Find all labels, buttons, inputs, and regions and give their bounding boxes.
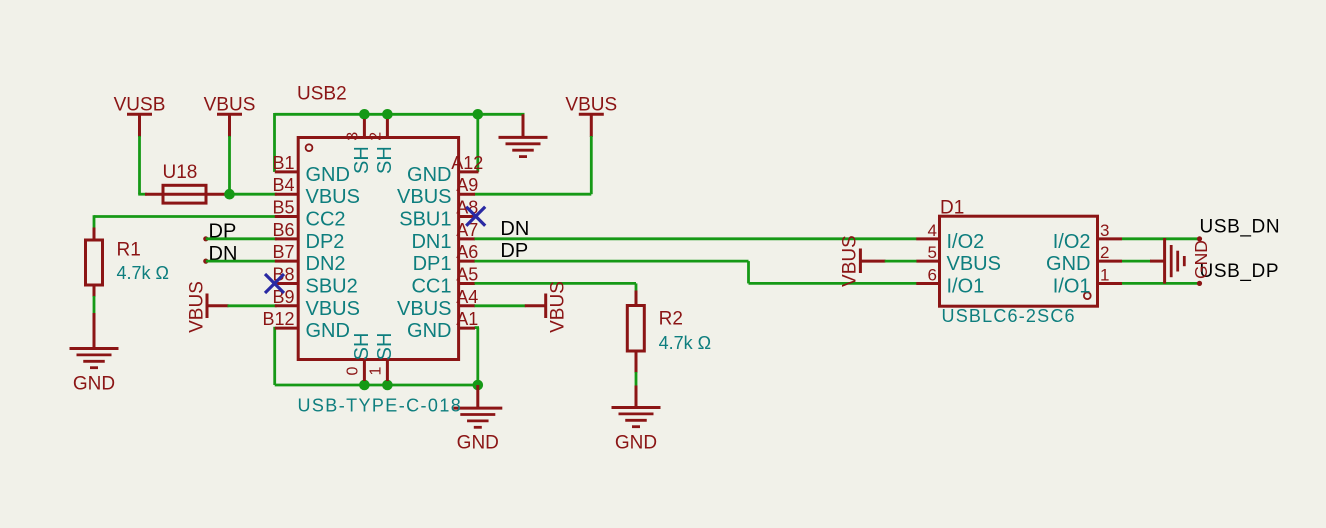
pin A8 SBU1 <box>459 215 475 218</box>
pin A1 GND <box>459 327 475 330</box>
svg-text:VBUS: VBUS <box>547 281 568 333</box>
wire CC1 A5 <box>475 282 637 285</box>
wire B12 drop <box>273 327 276 385</box>
pin 2 GND D1 right <box>1098 260 1123 263</box>
pin B9 VBUS <box>275 304 298 307</box>
no-connect B8 <box>265 274 284 293</box>
svg-text:3: 3 <box>1100 221 1109 240</box>
pin B1 GND <box>275 170 298 173</box>
pin B4 VBUS <box>275 193 298 196</box>
wire VBUS to pin5 <box>885 260 917 263</box>
svg-text:I/O2: I/O2 <box>1053 231 1091 253</box>
junction bottom S1 <box>382 380 393 391</box>
svg-text:GND: GND <box>407 320 451 342</box>
wire VUSB drop <box>138 136 141 194</box>
svg-text:DN: DN <box>500 218 529 240</box>
svg-text:SBU2: SBU2 <box>306 275 358 297</box>
svg-text:VBUS: VBUS <box>840 235 861 287</box>
svg-text:A12: A12 <box>451 153 483 173</box>
wire A12 riser <box>476 114 479 172</box>
svg-text:3: 3 <box>344 132 361 141</box>
svg-text:VBUS: VBUS <box>204 95 256 116</box>
svg-text:DN2: DN2 <box>306 253 346 275</box>
pin B12 GND <box>275 327 298 330</box>
wire USB_DN <box>1122 237 1199 240</box>
svg-text:I/O1: I/O1 <box>947 275 985 297</box>
svg-text:DP: DP <box>500 240 528 262</box>
pin B5 CC2 <box>275 215 298 218</box>
svg-text:I/O2: I/O2 <box>947 231 985 253</box>
pin 4 I/O2 D1 left <box>916 237 939 240</box>
pin 6 I/O1 D1 left <box>916 282 939 285</box>
wire bottom SHIELD bus <box>275 384 478 387</box>
pin A7 DN1 <box>459 237 475 240</box>
pin B8 SBU2 <box>275 282 298 285</box>
pin A5 CC1 <box>459 282 475 285</box>
pin 1 I/O1 D1 right <box>1098 282 1123 285</box>
svg-text:5: 5 <box>928 243 937 262</box>
wire B4 VBUS <box>230 193 277 196</box>
pin A4 VBUS <box>459 304 475 307</box>
junction top S2 <box>382 109 393 120</box>
pin B6 DP2 <box>275 237 298 240</box>
resistor R1 <box>93 228 96 241</box>
ground R1 <box>93 313 96 349</box>
svg-text:B4: B4 <box>272 175 294 195</box>
pin 5 VBUS D1 left <box>916 260 939 263</box>
pin S2 SH top <box>386 119 389 139</box>
svg-text:A5: A5 <box>456 264 478 284</box>
svg-text:GND: GND <box>73 373 115 394</box>
svg-text:USB_DN: USB_DN <box>1200 216 1281 237</box>
svg-text:B5: B5 <box>272 198 294 218</box>
svg-text:A1: A1 <box>456 309 478 329</box>
svg-text:B1: B1 <box>272 153 294 173</box>
wire USB_DP <box>1122 282 1199 285</box>
svg-text:A9: A9 <box>456 175 478 195</box>
wire A1 drop <box>475 326 480 329</box>
svg-text:SH: SH <box>374 146 396 174</box>
pin S0 SH bottom <box>363 358 366 381</box>
power flag VBUS D1 <box>859 249 862 274</box>
svg-text:VBUS: VBUS <box>306 186 360 208</box>
ground right rotated <box>1150 260 1165 263</box>
svg-text:VBUS: VBUS <box>397 298 451 320</box>
svg-text:VBUS: VBUS <box>306 298 360 320</box>
svg-text:USB2: USB2 <box>297 84 347 105</box>
svg-text:DN1: DN1 <box>411 231 451 253</box>
svg-text:R1: R1 <box>117 240 141 261</box>
svg-text:R2: R2 <box>659 309 683 330</box>
pin A6 DP1 <box>459 260 475 263</box>
pin B7 DN2 <box>275 260 298 263</box>
svg-text:SH: SH <box>351 146 373 174</box>
svg-text:SH: SH <box>374 333 396 361</box>
svg-text:4: 4 <box>928 221 937 240</box>
junction bottom S0 <box>359 380 370 391</box>
pin S1 SH bottom <box>386 358 389 381</box>
svg-text:GND: GND <box>457 433 499 454</box>
svg-text:1: 1 <box>367 366 384 375</box>
ground top shield <box>522 114 525 137</box>
svg-text:USB-TYPE-C-018: USB-TYPE-C-018 <box>298 396 463 416</box>
junction bottom GND <box>473 380 484 391</box>
svg-text:USB_DP: USB_DP <box>1200 261 1280 282</box>
ground R2 <box>635 386 638 408</box>
svg-text:B6: B6 <box>272 220 294 240</box>
svg-text:GND: GND <box>1191 240 1211 279</box>
svg-text:U18: U18 <box>163 162 198 183</box>
svg-text:DP1: DP1 <box>413 253 452 275</box>
wire VBUS to A9 <box>590 136 593 194</box>
svg-text:B9: B9 <box>272 287 294 307</box>
svg-text:2: 2 <box>367 132 384 141</box>
svg-text:SH: SH <box>351 333 373 361</box>
svg-text:0: 0 <box>344 366 361 375</box>
svg-text:4.7k Ω: 4.7k Ω <box>659 333 711 353</box>
ground bottom <box>476 385 479 408</box>
junction U18-VBUS <box>224 189 235 200</box>
wire DP A6 to D1 <box>475 260 749 263</box>
svg-text:B12: B12 <box>262 309 294 329</box>
pin A12 GND <box>459 170 479 173</box>
svg-text:VUSB: VUSB <box>114 95 166 116</box>
svg-text:1: 1 <box>1100 265 1109 284</box>
svg-text:USBLC6-2SC6: USBLC6-2SC6 <box>942 306 1076 326</box>
wire A4 VBUS <box>475 304 526 307</box>
wire R1 top <box>93 215 96 229</box>
wire VBUS to B9 <box>228 304 277 307</box>
svg-text:GND: GND <box>1046 253 1090 275</box>
svg-text:SBU1: SBU1 <box>399 209 451 231</box>
svg-text:GND: GND <box>306 164 350 186</box>
svg-text:2: 2 <box>1100 243 1109 262</box>
svg-text:DP2: DP2 <box>306 231 345 253</box>
wire CC2 B5 <box>94 215 277 218</box>
resistor R2 <box>635 291 638 307</box>
pin A9 VBUS <box>459 193 475 196</box>
svg-text:GND: GND <box>306 320 350 342</box>
svg-text:GND: GND <box>407 164 451 186</box>
svg-text:4.7k Ω: 4.7k Ω <box>117 263 169 283</box>
power flag VBUS A4 <box>525 304 546 307</box>
svg-text:VBUS: VBUS <box>947 253 1001 275</box>
svg-text:CC1: CC1 <box>411 275 451 297</box>
svg-text:VBUS: VBUS <box>565 95 617 116</box>
wire R1 gnd <box>93 296 96 314</box>
svg-text:CC2: CC2 <box>306 209 346 231</box>
node USB_DP end <box>1197 281 1202 286</box>
junction top S3 <box>359 109 370 120</box>
svg-text:GND: GND <box>615 433 657 454</box>
wire DP to B6 <box>206 237 277 240</box>
wire DN to B7 <box>206 260 277 263</box>
wire VBUS drop <box>228 136 231 192</box>
wire D1 GND <box>1122 260 1151 263</box>
svg-text:A6: A6 <box>456 242 478 262</box>
svg-text:I/O1: I/O1 <box>1053 275 1091 297</box>
pin S3 SH top <box>363 119 366 139</box>
svg-text:6: 6 <box>928 265 937 284</box>
wire DN A7 to D1 <box>475 237 917 240</box>
node USB_DN end <box>1197 236 1202 241</box>
wire top SHIELD bus <box>275 113 525 116</box>
no-connect A8 <box>466 207 485 226</box>
junction top A12 <box>473 109 484 120</box>
svg-text:VBUS: VBUS <box>186 281 207 333</box>
svg-text:A4: A4 <box>456 287 478 307</box>
svg-text:VBUS: VBUS <box>397 186 451 208</box>
wire R2 gnd <box>635 372 638 386</box>
wire B1 riser <box>273 113 276 172</box>
pin 3 I/O2 D1 right <box>1098 237 1123 240</box>
svg-text:B7: B7 <box>272 242 294 262</box>
